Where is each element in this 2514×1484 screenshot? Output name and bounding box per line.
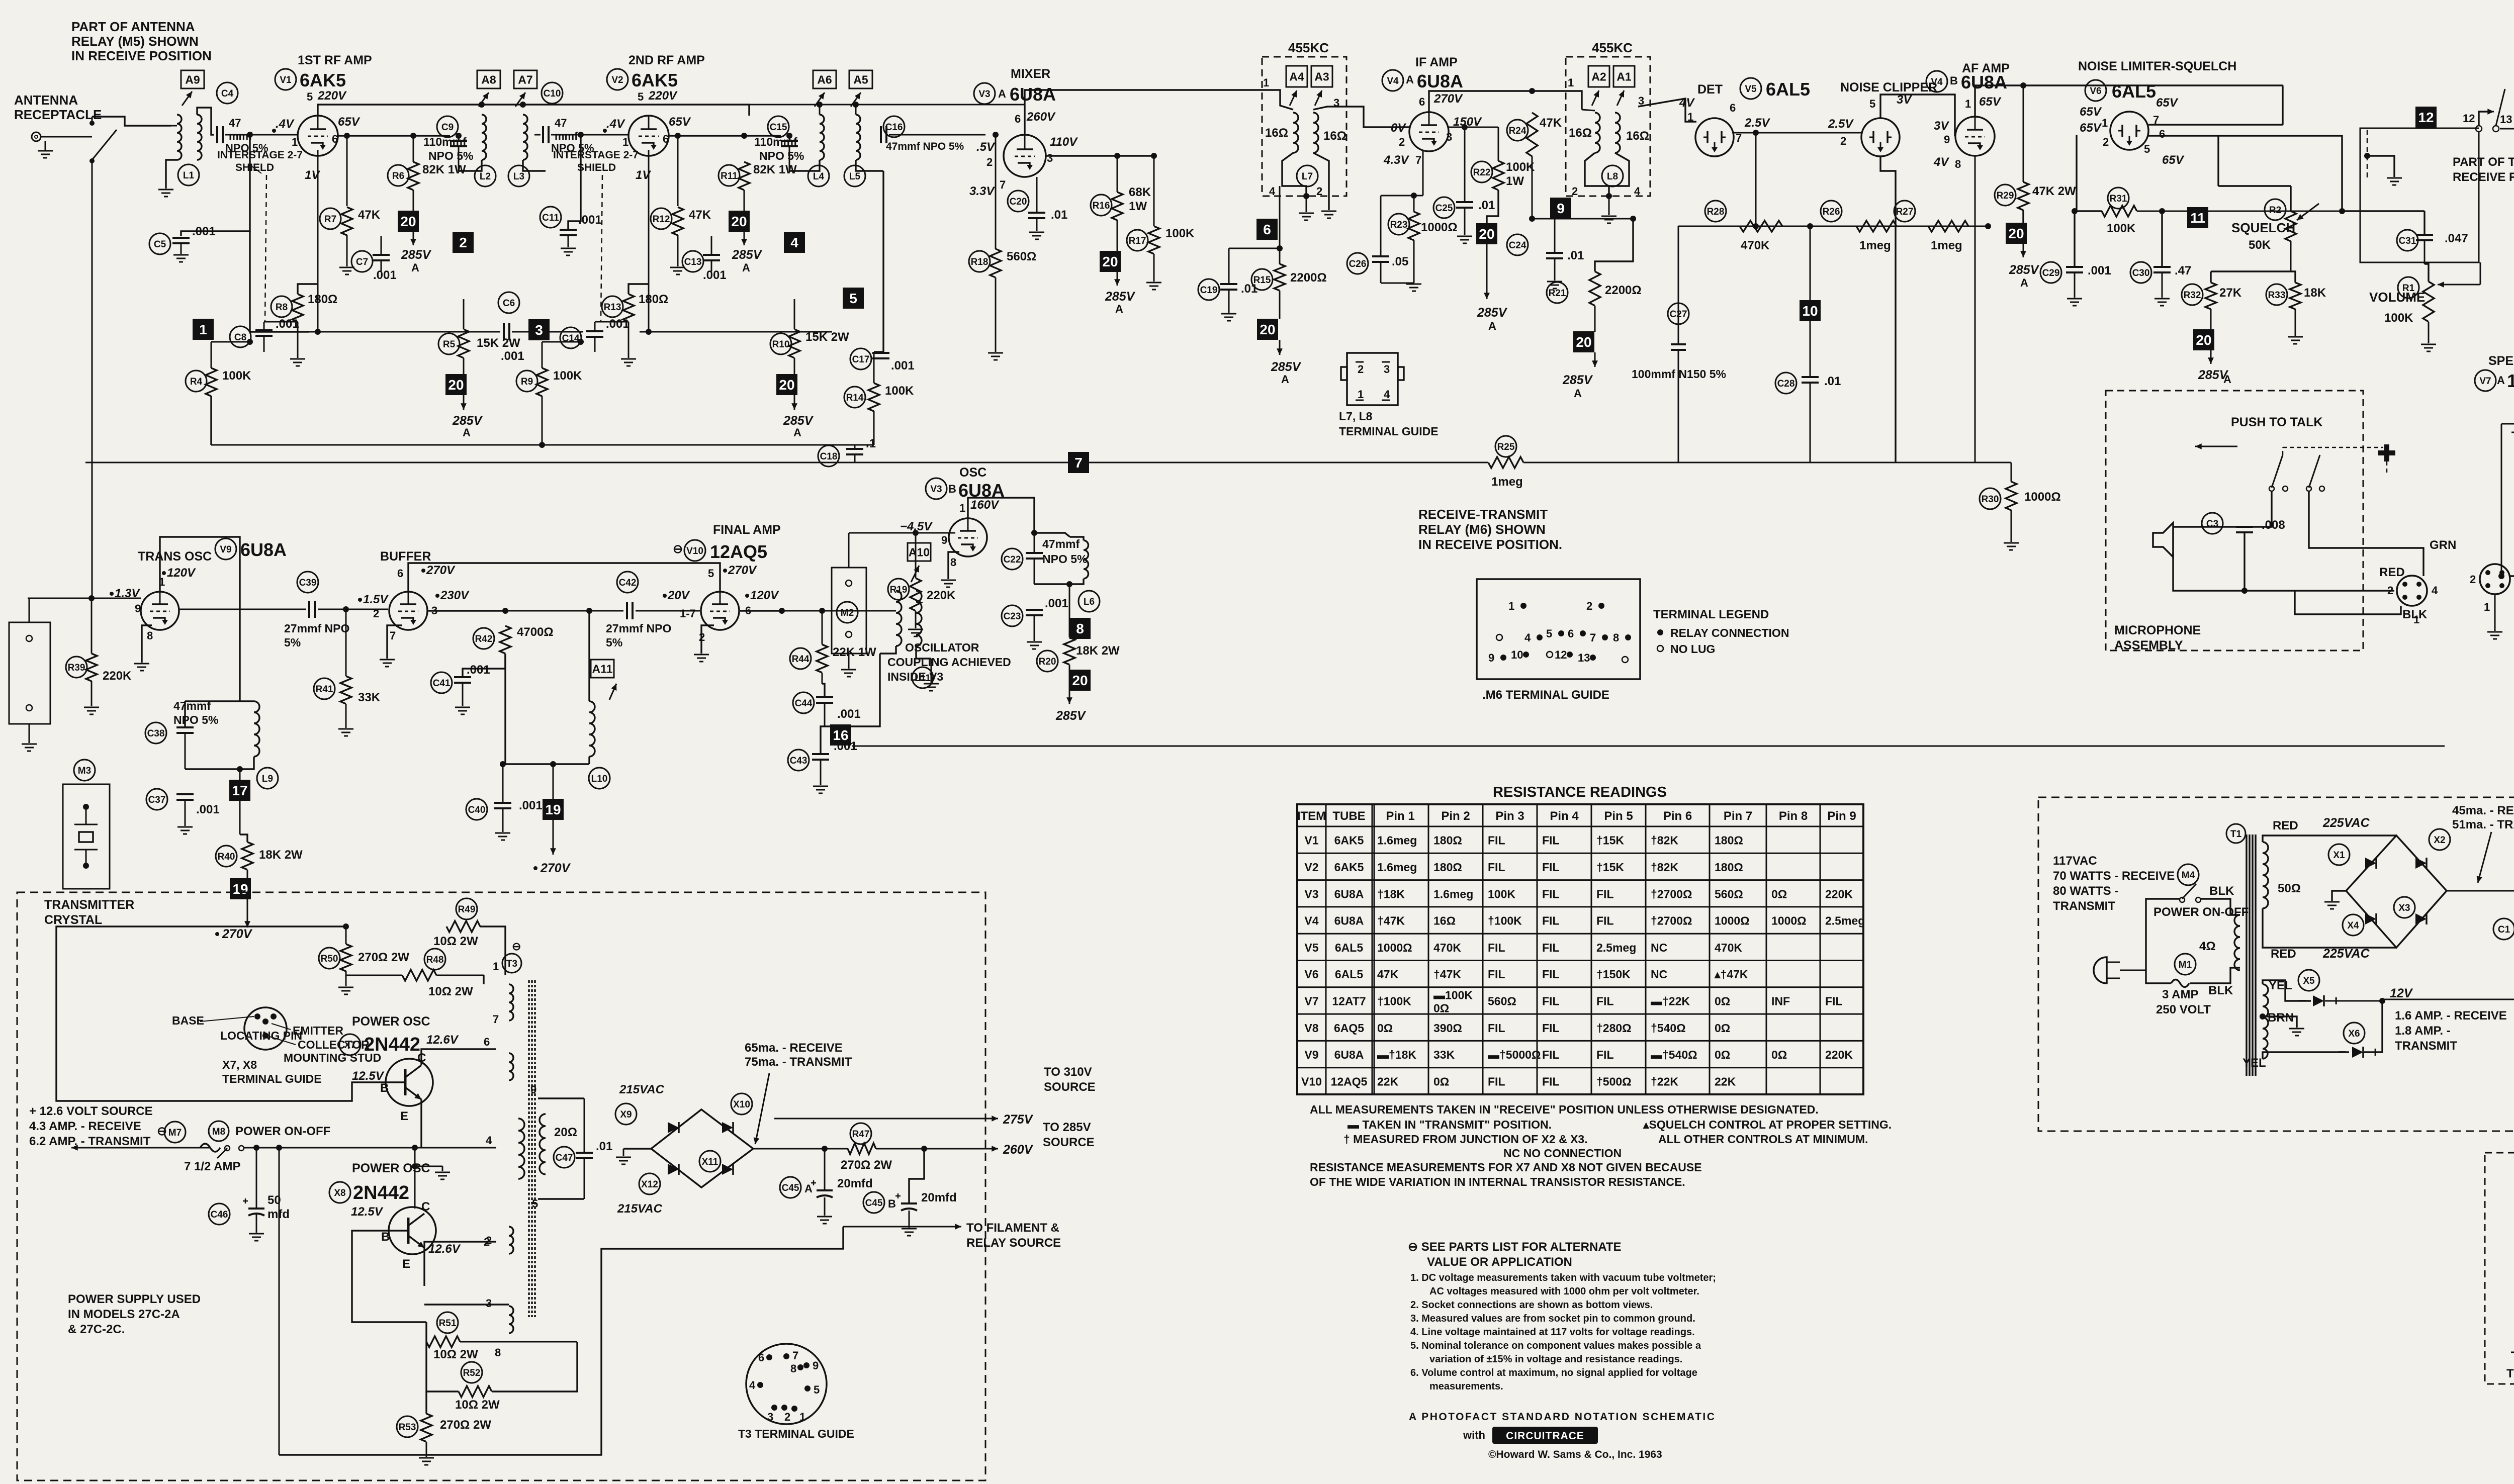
svg-text:5: 5 [849, 291, 857, 306]
svg-text:L10: L10 [591, 774, 608, 784]
svg-text:C30: C30 [2132, 268, 2150, 279]
svg-text:100K: 100K [1488, 887, 1515, 900]
relay M6 contact box [2360, 128, 2479, 262]
svg-text:POWER ON-OFF: POWER ON-OFF [235, 1125, 330, 1138]
svg-text:285V: 285V [783, 414, 814, 428]
svg-text:7: 7 [493, 1013, 499, 1026]
svg-text:220K: 220K [927, 589, 956, 602]
svg-text:6: 6 [397, 567, 403, 580]
svg-text:R53: R53 [399, 1422, 416, 1433]
fuse M1 3 amp [2175, 954, 2196, 975]
svg-text:X7: X7 [344, 1040, 355, 1051]
svg-text:RELAY (M5) SHOWN: RELAY (M5) SHOWN [71, 34, 199, 49]
main 12V line [71, 1147, 201, 1149]
bridge diodes [2365, 858, 2376, 869]
svg-text:TRANS OSC: TRANS OSC [138, 549, 212, 564]
svg-text:2200Ω: 2200Ω [1290, 271, 1327, 285]
svg-text:C15: C15 [770, 122, 787, 133]
svg-text:R7: R7 [324, 214, 336, 225]
resistor R8 cathode [271, 296, 292, 317]
ground at C5 [181, 243, 182, 254]
svg-text:R5: R5 [443, 339, 456, 350]
svg-text:R25: R25 [1497, 442, 1515, 452]
svg-text:1.8 AMP. -: 1.8 AMP. - [2395, 1024, 2451, 1038]
capacitor C28 [1775, 373, 1797, 394]
svg-text:8: 8 [147, 629, 153, 642]
svg-text:M3: M3 [78, 766, 91, 776]
wire mixer plate to L7 pin1 [1025, 90, 1293, 117]
svg-text:R8: R8 [276, 302, 288, 313]
svg-text:C38: C38 [147, 728, 165, 739]
svg-text:A8: A8 [481, 73, 496, 86]
ground at R8 [290, 358, 305, 360]
resistor R47 [850, 1123, 871, 1144]
svg-text:RESISTANCE READINGS: RESISTANCE READINGS [1493, 784, 1667, 800]
svg-text:82K 1W: 82K 1W [753, 163, 797, 176]
svg-text:285V: 285V [1477, 306, 1508, 320]
svg-text:100K: 100K [553, 369, 582, 383]
svg-text:A: A [2223, 373, 2231, 386]
svg-text:390Ω: 390Ω [1433, 1022, 1462, 1035]
svg-text:FIL: FIL [1825, 994, 1843, 1007]
svg-text:NC: NC [1651, 968, 1667, 981]
svg-text:.001: .001 [703, 268, 727, 282]
wire L10 top to buffer output line [588, 611, 590, 674]
svg-text:C: C [421, 1200, 430, 1214]
arrow receive direction [2195, 446, 2237, 447]
svg-text:INF: INF [1771, 994, 1790, 1007]
capacitor C39 [297, 572, 318, 593]
svg-text:A11: A11 [592, 662, 613, 675]
svg-text:5: 5 [708, 567, 714, 580]
svg-text:9: 9 [530, 1083, 536, 1096]
svg-text:X12: X12 [641, 1179, 658, 1190]
svg-text:RESISTANCE MEASUREMENTS FOR X7: RESISTANCE MEASUREMENTS FOR X7 AND X8 NO… [1310, 1161, 1702, 1174]
svg-text:FINAL AMP: FINAL AMP [713, 523, 781, 537]
crystal holder box [9, 622, 50, 724]
wire L1 secondary to C4 [197, 108, 214, 135]
wire relay box top to contact 12 [2476, 128, 2479, 129]
svg-text:V6: V6 [1304, 968, 1318, 981]
svg-text:2: 2 [1399, 136, 1405, 148]
svg-text:220V: 220V [648, 89, 678, 103]
svg-text:6: 6 [758, 1351, 764, 1364]
circuitrace 7 [1068, 452, 1089, 473]
svg-text:†18K: †18K [1377, 887, 1405, 900]
svg-text:POWER OSC: POWER OSC [352, 1161, 430, 1175]
svg-text:A PHOTOFACT STANDARD NOTATION: A PHOTOFACT STANDARD NOTATION SCHEMATIC [1409, 1411, 1716, 1423]
svg-text:GRN: GRN [2430, 538, 2456, 552]
T3 winding 6-4-2 [509, 1053, 513, 1080]
svg-text:†100K: †100K [1488, 914, 1522, 927]
svg-text:C9: C9 [441, 122, 454, 133]
AC plug [2094, 957, 2107, 983]
svg-text:5. Nominal tolerance on comp: 5. Nominal tolerance on component values… [1410, 1340, 1701, 1351]
svg-text:A3: A3 [1314, 70, 1329, 83]
svg-text:TERMINAL GUIDE: TERMINAL GUIDE [1339, 425, 1439, 438]
slug A10 [908, 543, 931, 561]
wire buffer output [428, 610, 505, 611]
svg-text:20mfd: 20mfd [921, 1191, 957, 1204]
svg-text:3: 3 [486, 1297, 492, 1310]
circuitrace 2 [453, 232, 474, 253]
svg-text:C13: C13 [684, 257, 702, 267]
svg-text:82K 1W: 82K 1W [422, 163, 466, 176]
svg-text:6AL5: 6AL5 [1335, 941, 1363, 954]
svg-text:IN MODELS 27C-2A: IN MODELS 27C-2A [68, 1308, 180, 1321]
svg-text:R52: R52 [463, 1368, 481, 1378]
svg-text:20: 20 [1576, 334, 1591, 350]
svg-text:20: 20 [731, 214, 747, 229]
switch M8 power on-off [209, 1121, 229, 1141]
svg-text:FIL: FIL [1542, 834, 1560, 847]
svg-text:270V: 270V [728, 564, 757, 577]
primary switch box [2146, 899, 2180, 970]
wire grn to socket [2353, 548, 2423, 576]
svg-text:A: A [1406, 73, 1414, 86]
svg-text:FIL: FIL [1488, 834, 1505, 847]
ground at R13 [621, 358, 636, 360]
L7 L8 terminal guide box [1347, 353, 1398, 405]
circuitrace 20 at R15 [1279, 291, 1281, 319]
svg-text:A: A [1281, 373, 1289, 386]
svg-text:FIL: FIL [1542, 914, 1560, 927]
svg-text:27K: 27K [2219, 286, 2242, 300]
capacitor C14 [560, 327, 581, 348]
svg-text:.M6 TERMINAL GUIDE: .M6 TERMINAL GUIDE [1482, 688, 1609, 702]
svg-text:NPO 5%: NPO 5% [1042, 552, 1087, 566]
svg-text:SHIELD: SHIELD [235, 162, 274, 173]
svg-text:C46: C46 [211, 1210, 228, 1220]
svg-text:9: 9 [1488, 652, 1494, 664]
svg-text:285V: 285V [452, 414, 483, 428]
svg-text:4.3 AMP. - RECEIVE: 4.3 AMP. - RECEIVE [29, 1120, 141, 1133]
wire trans osc B+ line [240, 523, 408, 563]
svg-text:−: − [2299, 993, 2307, 1008]
coil L4 [813, 70, 836, 88]
capacitor C22 [1002, 548, 1023, 570]
svg-text:27mmf NPO: 27mmf NPO [284, 622, 349, 635]
svg-text:2: 2 [2103, 136, 2109, 148]
svg-text:A: A [793, 426, 801, 439]
svg-text:10: 10 [1802, 303, 1818, 319]
svg-text:RECEIVE-TRANSMIT: RECEIVE-TRANSMIT [1418, 507, 1548, 522]
capacitor C15 coupling [768, 116, 789, 137]
svg-text:C41: C41 [433, 678, 451, 689]
ground at R53 [419, 1457, 434, 1459]
svg-text:0Ω: 0Ω [1377, 1022, 1393, 1035]
svg-text:.4V: .4V [606, 117, 625, 131]
circuitrace 5 [843, 288, 864, 309]
wire L2 L3 bottoms [459, 160, 482, 171]
coil L8 primary [1595, 113, 1600, 153]
svg-text:FIL: FIL [1542, 1048, 1560, 1061]
resistor R29 [1995, 184, 2016, 206]
bias bus with C6 [309, 331, 500, 333]
resistor R25 in bus [1495, 436, 1516, 457]
tube V3B 6U8A oscillator [949, 518, 987, 556]
svg-text:8: 8 [950, 556, 956, 569]
svg-text:17: 17 [232, 783, 247, 798]
squelch pot R2 [2265, 199, 2286, 220]
svg-text:IN RECEIVE POSITION: IN RECEIVE POSITION [71, 48, 212, 63]
svg-text:65V: 65V [2162, 153, 2185, 167]
volume pot R1 [2398, 277, 2419, 298]
svg-text:12.6V: 12.6V [428, 1242, 461, 1256]
svg-text:L6: L6 [1084, 597, 1095, 607]
svg-text:R42: R42 [475, 634, 493, 644]
svg-text:0Ω: 0Ω [1433, 1075, 1449, 1088]
coil L2 [477, 70, 500, 88]
svg-text:.47: .47 [2175, 264, 2191, 277]
resistor R6 screen [388, 165, 409, 186]
ground V9 cathode [142, 625, 152, 663]
wire L4 L5 [789, 160, 820, 171]
svg-text:6: 6 [663, 133, 669, 145]
wire clipper cathode down [1880, 156, 1896, 462]
svg-text:T3: T3 [506, 959, 517, 969]
push to talk button [2384, 444, 2389, 461]
svg-text:6U8A: 6U8A [1334, 914, 1364, 927]
svg-text:X9: X9 [620, 1109, 632, 1120]
svg-text:20mfd: 20mfd [837, 1177, 873, 1190]
svg-text:.01: .01 [1824, 375, 1841, 388]
svg-text:C20: C20 [1010, 197, 1027, 207]
svg-text:C28: C28 [1777, 379, 1795, 389]
svg-text:19: 19 [545, 802, 561, 817]
antenna receptacle jack [32, 132, 41, 141]
svg-text:NPO 5%: NPO 5% [428, 149, 473, 162]
tube V6 6AL5 [2110, 112, 2148, 150]
svg-text:5: 5 [638, 90, 644, 103]
svg-text:47K 2W: 47K 2W [2032, 184, 2076, 198]
svg-text:▬100K: ▬100K [1433, 988, 1473, 1001]
svg-text:225VAC: 225VAC [2322, 947, 2370, 961]
svg-text:270V: 270V [540, 861, 571, 875]
svg-text:R33: R33 [2268, 290, 2286, 301]
svg-text:180Ω: 180Ω [308, 293, 337, 306]
svg-text:10Ω 2W: 10Ω 2W [433, 935, 478, 948]
svg-text:65ma. - RECEIVE: 65ma. - RECEIVE [745, 1041, 843, 1055]
svg-text:65V: 65V [669, 115, 691, 129]
resistor R10 screen divider [770, 333, 791, 354]
svg-text:1meg: 1meg [1491, 475, 1523, 489]
tube V9 designator [215, 538, 236, 560]
svg-text:22K 1W: 22K 1W [833, 645, 876, 659]
capacitor C4 [217, 82, 238, 104]
wire V2 plate node [669, 135, 781, 136]
svg-text:4V: 4V [1933, 155, 1949, 169]
svg-text:†15K: †15K [1596, 861, 1624, 874]
svg-text:8: 8 [1076, 621, 1084, 636]
svg-text:A9: A9 [185, 73, 200, 86]
svg-text:20: 20 [1260, 322, 1275, 337]
svg-text:INTERSTAGE 2-7: INTERSTAGE 2-7 [553, 149, 639, 161]
resistor R15 [1251, 269, 1273, 290]
svg-text:9: 9 [813, 1359, 819, 1372]
X8 collector from bus [414, 1148, 416, 1209]
circuitrace 19 trans osc [247, 870, 248, 879]
svg-text:▴†47K: ▴†47K [1714, 968, 1748, 981]
wire buffer plate top line [408, 563, 720, 592]
svg-text:R14: R14 [846, 393, 864, 403]
svg-text:270Ω 2W: 270Ω 2W [440, 1418, 491, 1432]
tube V1 6AK5 [298, 116, 338, 156]
wire V6 pin7 to relay line [2150, 116, 2333, 117]
svg-text:COUPLING ACHIEVED: COUPLING ACHIEVED [887, 656, 1011, 669]
svg-text:16Ω: 16Ω [1626, 129, 1649, 143]
svg-text:B: B [1950, 74, 1958, 87]
svg-text:R20: R20 [1039, 657, 1056, 667]
svg-text:1: 1 [2102, 117, 2108, 129]
svg-text:mmf: mmf [555, 130, 578, 142]
svg-text:MICROPHONE: MICROPHONE [2114, 623, 2201, 637]
svg-text:4: 4 [1384, 388, 1390, 401]
svg-text:A4: A4 [1289, 70, 1304, 83]
transformer T1 primary [2234, 915, 2240, 970]
svg-text:6U8A: 6U8A [1417, 71, 1463, 91]
circuitrace 8 [1069, 618, 1091, 639]
resistor R12 [651, 208, 672, 229]
wire long det bus [85, 462, 1488, 463]
svg-text:V3: V3 [930, 484, 942, 495]
mixer grid resistor wires [874, 171, 883, 352]
svg-text:6AK5: 6AK5 [1334, 861, 1364, 874]
svg-text:20V: 20V [667, 589, 690, 602]
svg-text:RED: RED [2379, 566, 2405, 579]
svg-text:11: 11 [2190, 210, 2205, 226]
resistor R20 [1037, 651, 1058, 672]
svg-text:.05: .05 [1392, 255, 1408, 268]
svg-text:A: A [1574, 387, 1582, 400]
wire stage1 bottom bus [211, 444, 874, 446]
ground V10 cathode [701, 625, 714, 654]
coil L8 secondary [1615, 113, 1620, 153]
svg-text:1: 1 [1263, 76, 1269, 89]
svg-text:C17: C17 [852, 354, 870, 365]
svg-text:47: 47 [555, 117, 567, 129]
wire L8 bottom legs [1585, 153, 1609, 196]
ground at mic socket [2494, 594, 2496, 631]
svg-text:2ND RF AMP: 2ND RF AMP [628, 53, 705, 67]
ground at antenna jack [45, 141, 46, 151]
wire V1 plate to C9 node [338, 135, 450, 136]
svg-text:CIRCUITRACE: CIRCUITRACE [1506, 1430, 1584, 1442]
svg-text:4: 4 [1634, 185, 1641, 198]
svg-text:3: 3 [535, 322, 543, 338]
svg-text:0V: 0V [1391, 121, 1406, 135]
svg-text:470K: 470K [1741, 239, 1770, 252]
microphone element [2153, 523, 2173, 557]
svg-text:3. Measured values are from: 3. Measured values are from socket pin t… [1410, 1313, 1695, 1324]
svg-text:15K 2W: 15K 2W [805, 330, 849, 344]
svg-text:4Ω: 4Ω [2199, 940, 2216, 953]
svg-text:FIL: FIL [1488, 1075, 1505, 1088]
resistor R9 AGC [516, 370, 537, 392]
svg-text:PUSH TO TALK: PUSH TO TALK [2231, 415, 2322, 429]
svg-text:▬†540Ω: ▬†540Ω [1651, 1048, 1697, 1061]
svg-text:6: 6 [1419, 96, 1425, 108]
resistor R24 [1507, 120, 1528, 141]
svg-text:285V: 285V [1271, 360, 1302, 374]
svg-text:C7: C7 [356, 257, 368, 267]
svg-text:65V: 65V [1979, 95, 2002, 109]
svg-text:ALL MEASUREMENTS TAKEN IN "REC: ALL MEASUREMENTS TAKEN IN "RECEIVE" POSI… [1310, 1103, 1819, 1116]
svg-text:RECEPTACLE: RECEPTACLE [14, 107, 102, 122]
svg-text:285V: 285V [2009, 263, 2040, 277]
svg-text:L1: L1 [183, 170, 195, 181]
svg-text:1.6 AMP. - RECEIVE: 1.6 AMP. - RECEIVE [2395, 1009, 2507, 1023]
svg-text:2: 2 [2470, 573, 2476, 586]
svg-text:9: 9 [135, 602, 141, 615]
svg-text:R28: R28 [1707, 207, 1725, 217]
svg-text:3: 3 [1047, 152, 1053, 164]
tube V5 designator [1740, 78, 1761, 99]
X8 base loop [333, 1231, 397, 1322]
svg-text:R17: R17 [1129, 236, 1146, 246]
resistor R11 screen [719, 165, 740, 186]
svg-text:with: with [1463, 1429, 1485, 1441]
resistor R4 AGC [186, 370, 207, 392]
svg-text:47K: 47K [689, 208, 711, 222]
wire node below L7 [1279, 186, 1281, 264]
svg-text:6U8A: 6U8A [1334, 887, 1364, 900]
svg-text:B: B [380, 1081, 389, 1095]
svg-text:C18: C18 [820, 451, 838, 462]
svg-text:A: A [1488, 320, 1496, 332]
wires R23 C26 cell [1381, 195, 1423, 197]
svg-text:+ 12.6 VOLT SOURCE: + 12.6 VOLT SOURCE [29, 1104, 153, 1118]
svg-text:V8: V8 [1304, 1022, 1318, 1035]
wire AGC bus down [210, 396, 212, 445]
svg-text:0Ω: 0Ω [1433, 1001, 1449, 1014]
svg-text:5: 5 [1546, 627, 1552, 640]
svg-text:160V: 160V [970, 498, 1000, 512]
ground below L8 [1608, 196, 1610, 215]
svg-text:FIL: FIL [1488, 941, 1505, 954]
svg-text:SHIELD: SHIELD [577, 162, 616, 173]
svg-text:C31: C31 [2399, 236, 2416, 246]
resistor R53 [397, 1416, 418, 1437]
ground at V3B cathode [948, 552, 959, 579]
svg-text:12AT7: 12AT7 [2507, 370, 2514, 391]
tube V3 designator [974, 83, 995, 104]
resistor R40 [216, 846, 237, 867]
svg-text:C5: C5 [154, 239, 166, 250]
coil L5 [849, 70, 872, 88]
svg-text:R24: R24 [1509, 126, 1527, 136]
svg-text:1000Ω: 1000Ω [1377, 941, 1412, 954]
svg-text:2: 2 [1358, 363, 1364, 376]
capacitor C19 [1198, 279, 1219, 300]
svg-text:TO 6 VOLT FILAMENT SOURCE: TO 6 VOLT FILAMENT SOURCE [2506, 1367, 2514, 1380]
svg-text:X4: X4 [2347, 920, 2359, 931]
svg-text:BLK: BLK [2209, 884, 2234, 898]
svg-text:C45: C45 [865, 1198, 883, 1209]
tube V2 6AK5 [628, 116, 669, 156]
svg-text:VALUE OR APPLICATION: VALUE OR APPLICATION [1427, 1255, 1572, 1269]
svg-text:6AL5: 6AL5 [2112, 81, 2156, 102]
svg-text:560Ω: 560Ω [1488, 994, 1516, 1007]
svg-text:TO 285V: TO 285V [1043, 1121, 1091, 1134]
svg-text:L8: L8 [1607, 171, 1618, 182]
resistor R7 [320, 208, 341, 229]
svg-text:10: 10 [1511, 648, 1523, 661]
svg-text:4700Ω: 4700Ω [517, 625, 554, 639]
circuitrace 20 below R10 [794, 358, 795, 376]
svg-text:M8: M8 [212, 1127, 225, 1137]
tube V3A 6U8A mixer [1004, 135, 1046, 177]
